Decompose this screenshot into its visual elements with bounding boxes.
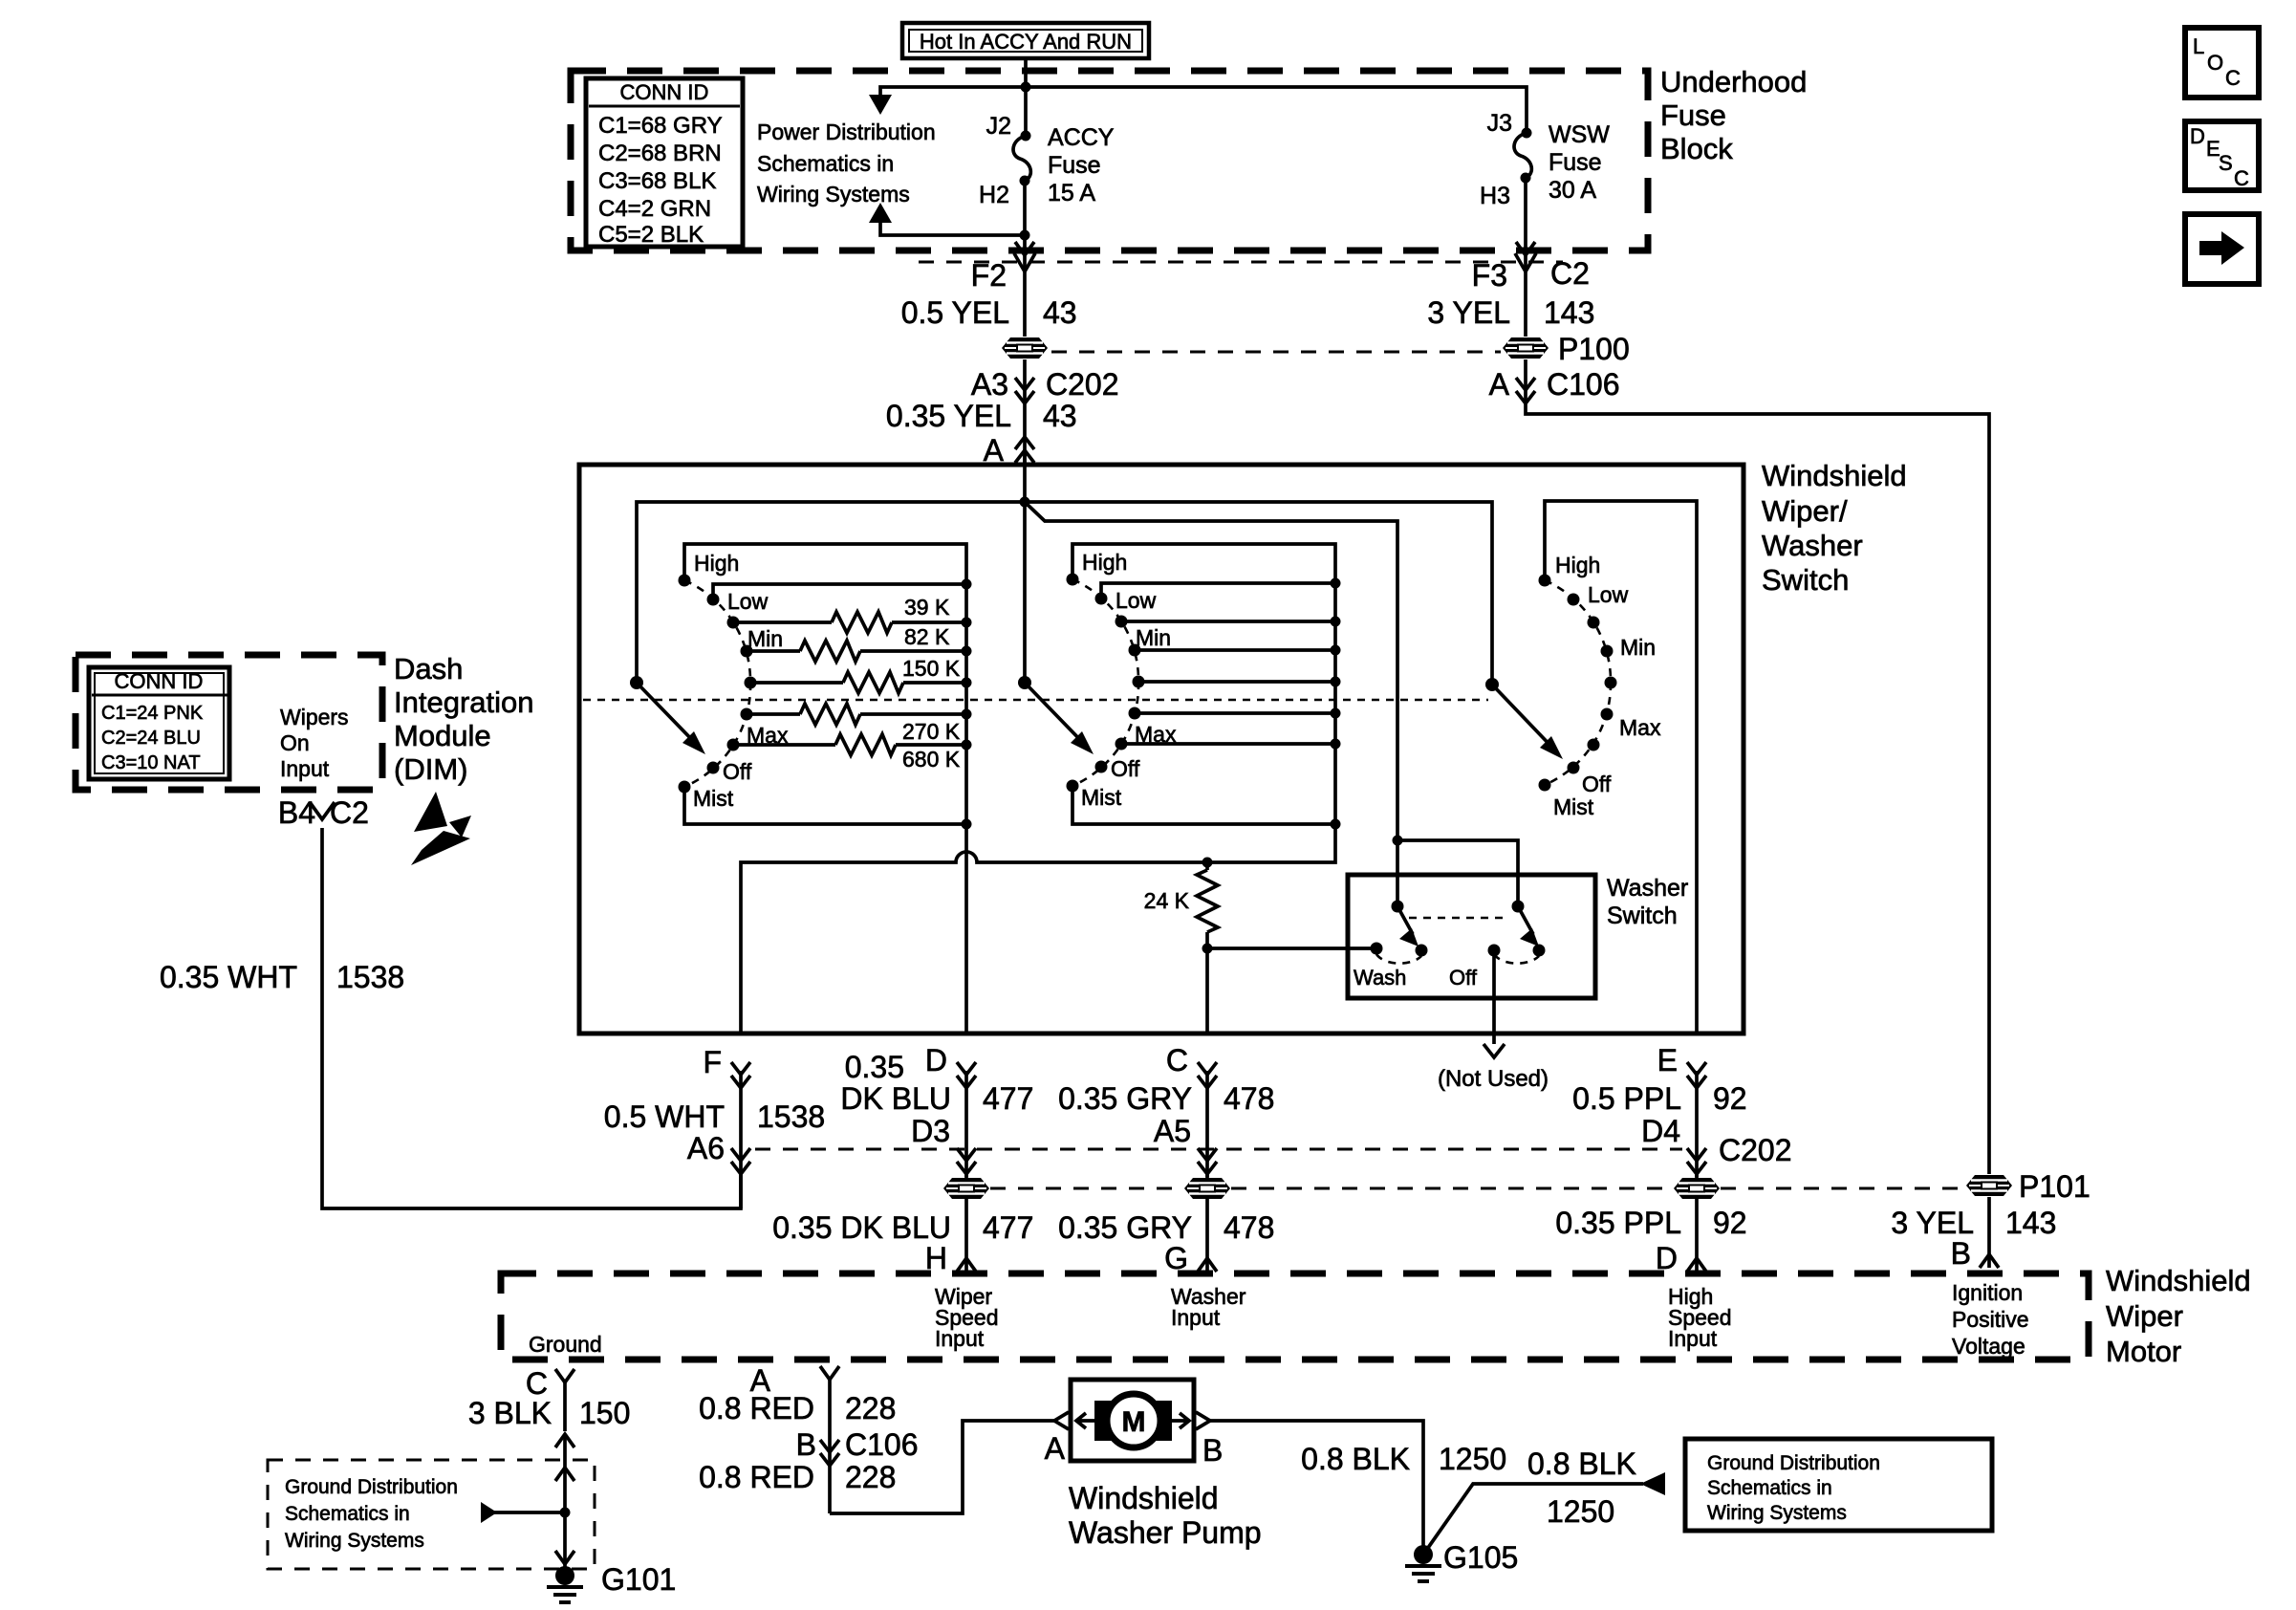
- svg-text:Dash: Dash: [394, 652, 463, 685]
- svg-text:Wiring Systems: Wiring Systems: [757, 182, 910, 207]
- wire 0.35 DK BLU 477 (lower): [772, 1210, 1033, 1245]
- wire P101 to pin B: [1987, 1197, 1991, 1268]
- top-right icon box arrow: [2185, 214, 2259, 284]
- svg-text:E: E: [1657, 1043, 1678, 1077]
- svg-text:143: 143: [1544, 295, 1594, 330]
- washer contact pole2 throw: [1533, 945, 1546, 957]
- svg-text:B: B: [796, 1427, 816, 1462]
- dashed splice row: [990, 1187, 1965, 1190]
- svg-text:43: 43: [1043, 399, 1077, 433]
- svg-text:Low: Low: [727, 589, 769, 614]
- node feed junction: [1020, 497, 1030, 508]
- svg-text:Switch: Switch: [1607, 903, 1678, 929]
- switch 3 position labels: [1553, 553, 1661, 819]
- connector C202 pin A3: [971, 359, 1119, 403]
- svg-text:Ignition: Ignition: [1952, 1280, 2023, 1305]
- svg-text:C2: C2: [330, 795, 369, 830]
- label High Speed Input: [1668, 1284, 1732, 1351]
- svg-text:3 BLK: 3 BLK: [468, 1396, 552, 1430]
- svg-text:Wiring Systems: Wiring Systems: [285, 1530, 424, 1552]
- svg-text:Integration: Integration: [394, 685, 534, 719]
- switch 2 position labels: [1081, 550, 1177, 810]
- resistor 24 K: [1144, 862, 1218, 948]
- svg-text:(DIM): (DIM): [394, 752, 467, 786]
- switch 3 contact dots: [1539, 575, 1617, 792]
- svg-text:0.8 RED: 0.8 RED: [699, 1391, 814, 1425]
- node J2 junction dot: [1021, 82, 1031, 93]
- svg-text:Fuse: Fuse: [1048, 152, 1101, 179]
- svg-text:Mist: Mist: [693, 786, 734, 811]
- resistor 270 K: [747, 704, 966, 744]
- splice on 478 wire: [1205, 1171, 1209, 1273]
- svg-text:Windshield: Windshield: [1762, 459, 1907, 492]
- svg-text:High: High: [1555, 553, 1600, 577]
- svg-text:Washer: Washer: [1607, 875, 1688, 902]
- washer contact wash: [1371, 943, 1383, 955]
- wire DIM wipers-on to A6: [322, 828, 741, 1208]
- wire 0.8 RED 228 (lower): [699, 1460, 896, 1494]
- svg-text:39 K: 39 K: [904, 595, 950, 620]
- svg-text:C: C: [1166, 1043, 1188, 1077]
- svg-text:C3=68 BLK: C3=68 BLK: [598, 168, 716, 194]
- dash integration module dashed outline: [76, 655, 382, 790]
- label Washer Input: [1171, 1284, 1246, 1330]
- svg-text:Schematics in: Schematics in: [285, 1503, 410, 1525]
- svg-text:1538: 1538: [336, 960, 404, 994]
- svg-text:J3: J3: [1487, 110, 1512, 137]
- splice pass-through P100: [1503, 337, 1549, 359]
- node ground branch junction: [560, 1508, 571, 1518]
- splice on 477 wire: [964, 1171, 968, 1273]
- svg-text:(Not Used): (Not Used): [1438, 1066, 1549, 1092]
- svg-text:Power Distribution: Power Distribution: [757, 120, 936, 144]
- ground distribution note box (right, solid): [1685, 1439, 1992, 1531]
- svg-text:0.5 PPL: 0.5 PPL: [1572, 1081, 1681, 1116]
- wire switch output bus to pin F: [741, 824, 1335, 1033]
- switch 1 contact dots: [679, 575, 757, 794]
- svg-text:Module: Module: [394, 719, 491, 752]
- splice on 92 wire: [1695, 1171, 1699, 1273]
- svg-text:ACCY: ACCY: [1048, 124, 1115, 151]
- arrowhead to ground distribution box: [1640, 1472, 1665, 1495]
- svg-text:82 K: 82 K: [904, 624, 950, 649]
- arrow down above G101: [555, 1551, 574, 1564]
- node 24K top junction: [1202, 858, 1213, 868]
- connector line C2 (fuse block to harness, dashed): [919, 261, 1563, 264]
- top-right icon box LOC: [2185, 28, 2259, 98]
- switch 2 output rail junction dots: [1331, 578, 1341, 830]
- wire ignition feed to wiper motor (right side): [1526, 402, 1989, 1174]
- dashed pole link: [1409, 917, 1506, 920]
- svg-text:L: L: [2193, 34, 2204, 58]
- wire 0.35 PPL 92 (lower): [1555, 1206, 1746, 1240]
- svg-text:C: C: [2225, 66, 2241, 90]
- svg-text:CONN ID: CONN ID: [620, 80, 709, 104]
- svg-text:M: M: [1122, 1406, 1146, 1438]
- svg-text:Windshield: Windshield: [1069, 1481, 1219, 1515]
- wire 0.35 GRY 478: [1058, 1071, 1274, 1177]
- svg-text:0.35 PPL: 0.35 PPL: [1555, 1206, 1681, 1240]
- wire feed rail to switch 1 pivot: [637, 502, 1025, 683]
- wire 24K junction to wash contact: [1207, 946, 1376, 950]
- svg-text:Hot In ACCY And RUN: Hot In ACCY And RUN: [920, 30, 1132, 54]
- svg-text:Wash: Wash: [1354, 966, 1406, 990]
- svg-text:143: 143: [2005, 1206, 2056, 1240]
- svg-text:F3: F3: [1472, 258, 1507, 293]
- resistor 82 K: [747, 624, 966, 662]
- svg-text:Off: Off: [1111, 756, 1140, 781]
- connector C106 pin A: [1489, 359, 1620, 403]
- wire branch from power distribution (bottom arrow): [869, 203, 1026, 235]
- svg-text:Low: Low: [1116, 588, 1157, 613]
- splice pass-through P101: [1966, 1175, 2012, 1196]
- svg-text:92: 92: [1713, 1081, 1747, 1116]
- svg-text:C1=24 PNK: C1=24 PNK: [101, 703, 204, 724]
- svg-text:C: C: [2234, 166, 2249, 190]
- wire branch to WSW fuse: [1026, 87, 1527, 133]
- washer pump terminal A chevron: [1054, 1412, 1069, 1429]
- svg-text:1250: 1250: [1547, 1494, 1614, 1529]
- switch 1 output rail junction dots: [962, 579, 972, 830]
- switch 3 contact arc: [1545, 580, 1611, 785]
- arrow up inside ground box: [555, 1468, 574, 1481]
- svg-text:43: 43: [1043, 295, 1077, 330]
- svg-text:24 K: 24 K: [1144, 888, 1190, 913]
- svg-text:270 K: 270 K: [902, 719, 961, 744]
- svg-text:G101: G101: [601, 1562, 676, 1597]
- splice pass-through on 43 wire: [1002, 337, 1048, 359]
- connector chevron B4/C2: [310, 802, 335, 819]
- svg-text:Low: Low: [1588, 582, 1629, 607]
- svg-text:J2: J2: [986, 113, 1011, 140]
- wire 3 BLK 150: [468, 1396, 631, 1430]
- resistor 150 K: [750, 656, 966, 693]
- svg-text:A3: A3: [971, 367, 1008, 402]
- svg-text:B4: B4: [278, 795, 315, 830]
- washer switch box: [1348, 875, 1595, 998]
- svg-text:C106: C106: [1547, 367, 1620, 402]
- svg-text:Positive: Positive: [1952, 1307, 2029, 1332]
- svg-text:Min: Min: [1620, 635, 1656, 660]
- switch 2 contact dots: [1067, 574, 1145, 793]
- washer contact pole1 throw: [1416, 945, 1428, 957]
- svg-text:Block: Block: [1660, 132, 1733, 165]
- ground G105: [1405, 1540, 1518, 1581]
- svg-text:Off: Off: [723, 759, 752, 784]
- washer switch pole 2: [1512, 901, 1540, 947]
- connector C202 dashed line: [755, 1148, 1682, 1151]
- top-right icon box DESC: [2185, 121, 2259, 190]
- label Wiper Speed Input: [935, 1284, 999, 1351]
- svg-text:Min: Min: [1136, 625, 1171, 650]
- svg-text:150: 150: [579, 1396, 630, 1430]
- svg-text:F2: F2: [971, 258, 1007, 293]
- svg-text:Wiper: Wiper: [2106, 1299, 2183, 1333]
- svg-text:0.5 YEL: 0.5 YEL: [901, 295, 1009, 330]
- svg-text:0.35 WHT: 0.35 WHT: [160, 960, 297, 994]
- svg-text:3 YEL: 3 YEL: [1427, 295, 1510, 330]
- svg-text:Voltage: Voltage: [1952, 1334, 2025, 1359]
- svg-text:S: S: [2219, 151, 2233, 175]
- ground G101: [547, 1562, 676, 1602]
- switch 1 position labels: [693, 551, 789, 811]
- svg-text:C202: C202: [1046, 367, 1119, 402]
- washer switch pole 1: [1392, 901, 1419, 947]
- switch 2 wiper pivot and arrow: [1018, 676, 1094, 754]
- svg-text:Ground: Ground: [529, 1332, 602, 1357]
- fuse ACCY Fuse 15 A: [1013, 87, 1115, 241]
- svg-text:Off: Off: [1449, 966, 1478, 990]
- svg-text:A: A: [1489, 367, 1510, 402]
- wire 24K junction down to pin C: [1205, 948, 1209, 1033]
- svg-text:Switch: Switch: [1762, 563, 1849, 597]
- svg-text:Input: Input: [1668, 1326, 1718, 1351]
- wire feed rail to washer switch: [1025, 502, 1397, 906]
- svg-text:C2=24 BLU: C2=24 BLU: [101, 728, 201, 749]
- svg-text:On: On: [280, 730, 310, 755]
- rotary switch 2 frame: [1072, 544, 1335, 824]
- svg-text:A: A: [1045, 1431, 1066, 1466]
- svg-text:C3=10 NAT: C3=10 NAT: [101, 752, 201, 773]
- wire switch 1 rail down to pin D: [964, 824, 968, 1033]
- svg-text:0.35 GRY: 0.35 GRY: [1058, 1081, 1192, 1116]
- svg-text:C202: C202: [1719, 1133, 1792, 1167]
- wire 0.5 WHT 1538: [604, 1071, 825, 1208]
- svg-text:228: 228: [845, 1460, 896, 1494]
- svg-text:Max: Max: [1619, 715, 1661, 740]
- rotary switch 1 frame: [684, 544, 966, 824]
- washer pump terminal B chevron: [1196, 1412, 1210, 1429]
- wire 0.35 YEL 43: [886, 399, 1077, 465]
- svg-text:Mist: Mist: [1081, 785, 1122, 810]
- battery feed box Hot In ACCY And RUN: [902, 23, 1149, 58]
- svg-text:D: D: [2190, 124, 2205, 148]
- wire 3 YEL 143: [1427, 295, 1594, 330]
- svg-text:Schematics in: Schematics in: [1707, 1477, 1832, 1499]
- wire washer pump feed: [830, 1421, 1054, 1513]
- svg-text:477: 477: [983, 1081, 1033, 1116]
- svg-text:C5=2 BLK: C5=2 BLK: [598, 222, 704, 248]
- svg-text:A5: A5: [1154, 1114, 1191, 1148]
- svg-text:D: D: [925, 1043, 947, 1077]
- resistor 680 K: [733, 734, 966, 772]
- svg-text:Wipers: Wipers: [280, 705, 349, 729]
- svg-text:C1=68 GRY: C1=68 GRY: [598, 113, 723, 139]
- resistor 39 K: [733, 595, 966, 633]
- svg-text:1538: 1538: [757, 1099, 825, 1134]
- svg-text:D4: D4: [1641, 1114, 1680, 1148]
- svg-text:High: High: [1082, 550, 1127, 575]
- wire 0.8 BLK 1250 to G105: [1210, 1421, 1423, 1555]
- svg-text:0.35: 0.35: [845, 1050, 904, 1084]
- svg-text:Washer: Washer: [1762, 529, 1863, 562]
- switch 1 low row wire: [713, 584, 966, 599]
- svg-text:G105: G105: [1443, 1540, 1518, 1575]
- svg-text:Ground Distribution: Ground Distribution: [1707, 1452, 1880, 1474]
- svg-text:C2=68 BRN: C2=68 BRN: [598, 141, 722, 166]
- note text Ground Distribution Schematics in Wiring Systems (left): [285, 1476, 458, 1552]
- svg-text:0.35 DK BLU: 0.35 DK BLU: [772, 1210, 951, 1245]
- svg-text:0.8 BLK: 0.8 BLK: [1301, 1442, 1410, 1476]
- wire washer feed to second pole: [1397, 840, 1518, 906]
- svg-text:Schematics in: Schematics in: [757, 151, 894, 176]
- windshield washer pump motor: [1071, 1380, 1194, 1461]
- ESD sensitive device symbol: [411, 792, 471, 865]
- wire 0.35 DK BLU 477: [840, 1050, 1033, 1177]
- arc off contact: [1494, 954, 1539, 964]
- svg-text:228: 228: [845, 1391, 896, 1425]
- windshield wiper motor dashed outline: [501, 1273, 2089, 1360]
- arc wash contact: [1376, 954, 1421, 964]
- svg-text:0.35 GRY: 0.35 GRY: [1058, 1210, 1192, 1245]
- svg-text:Min: Min: [747, 626, 783, 651]
- fuse WSW Fuse 30 A: [1514, 121, 1610, 235]
- svg-text:Fuse: Fuse: [1660, 98, 1726, 132]
- svg-text:Underhood: Underhood: [1660, 65, 1807, 98]
- wire 0.5 PPL 92: [1572, 1071, 1746, 1177]
- svg-text:H2: H2: [979, 182, 1009, 208]
- svg-text:DK BLU: DK BLU: [840, 1081, 951, 1116]
- rotary switch 3 feed wire: [1545, 501, 1697, 1033]
- wire ACCY fuse output exits fuse block: [1023, 235, 1027, 337]
- dashed link between pass-throughs: [1051, 351, 1501, 354]
- svg-text:Input: Input: [935, 1326, 985, 1351]
- svg-text:680 K: 680 K: [902, 747, 961, 772]
- windshield wiper/washer switch outline: [579, 465, 1744, 1033]
- wire not used output: [1438, 950, 1549, 1092]
- node washer feed junction: [1393, 836, 1403, 846]
- svg-text:CONN ID: CONN ID: [115, 669, 204, 693]
- svg-text:0.35 YEL: 0.35 YEL: [886, 399, 1011, 433]
- svg-text:0.8 RED: 0.8 RED: [699, 1460, 814, 1494]
- wire 3 YEL 143 (lower): [1891, 1206, 2056, 1240]
- svg-text:Washer Pump: Washer Pump: [1069, 1515, 1262, 1550]
- svg-text:C4=2 GRN: C4=2 GRN: [598, 196, 711, 222]
- label Wipers On Input: [280, 705, 349, 781]
- svg-text:Ground Distribution: Ground Distribution: [285, 1476, 458, 1498]
- svg-text:92: 92: [1713, 1206, 1747, 1240]
- dashed gang line across switches: [583, 699, 1488, 702]
- connector chevron into G101 branch: [555, 1434, 574, 1447]
- wire 0.35 WHT 1538 (DIM): [160, 960, 404, 994]
- wire 0.35 GRY 478 (lower): [1058, 1210, 1274, 1245]
- svg-text:High: High: [694, 551, 739, 576]
- svg-text:C106: C106: [845, 1427, 919, 1462]
- svg-text:C2: C2: [1550, 256, 1590, 291]
- wire WSW fuse output exits fuse block: [1524, 235, 1527, 337]
- underhood fuse block dashed outline: [571, 71, 1648, 250]
- svg-text:Wiper/: Wiper/: [1762, 494, 1848, 528]
- svg-text:0.5 WHT: 0.5 WHT: [604, 1099, 725, 1134]
- svg-text:1250: 1250: [1439, 1442, 1506, 1476]
- wire to ground distribution reference: [481, 1502, 565, 1523]
- wire 0.8 RED 228 (upper): [699, 1391, 896, 1425]
- svg-text:Motor: Motor: [2106, 1335, 2181, 1368]
- svg-text:0.8 BLK: 0.8 BLK: [1527, 1447, 1636, 1481]
- wire main feed into switch: [1023, 453, 1027, 683]
- svg-text:P101: P101: [2019, 1169, 2090, 1204]
- svg-text:O: O: [2207, 51, 2223, 75]
- svg-text:Fuse: Fuse: [1549, 149, 1602, 176]
- svg-text:B: B: [1951, 1236, 1971, 1271]
- svg-text:477: 477: [983, 1210, 1033, 1245]
- svg-text:P100: P100: [1558, 332, 1630, 366]
- wire from feed box into fuse block: [1024, 58, 1028, 87]
- svg-text:F: F: [703, 1045, 722, 1079]
- svg-text:15 A: 15 A: [1048, 180, 1095, 207]
- switch 1 contact arc: [684, 580, 750, 787]
- connector id table CONN ID (DIM): [89, 667, 229, 779]
- svg-text:A6: A6: [687, 1131, 725, 1165]
- wire 0.8 BLK 1250 to ground distribution: [1423, 1484, 1643, 1555]
- ground distribution note box (left, dashed): [268, 1460, 595, 1569]
- wire branch to power distribution (top arrow): [869, 87, 1026, 115]
- svg-text:30 A: 30 A: [1549, 177, 1596, 204]
- svg-text:Off: Off: [1582, 772, 1612, 796]
- svg-text:Windshield: Windshield: [2106, 1264, 2251, 1297]
- svg-text:Input: Input: [280, 756, 330, 781]
- svg-text:WSW: WSW: [1549, 121, 1610, 148]
- svg-text:3 YEL: 3 YEL: [1891, 1206, 1974, 1240]
- svg-text:150 K: 150 K: [902, 656, 961, 681]
- svg-text:478: 478: [1224, 1081, 1274, 1116]
- note text Ground Distribution Schematics in Wiring Systems (right): [1707, 1452, 1880, 1524]
- wire feed rail to switch 3 pivot: [1025, 502, 1492, 685]
- label Ignition Positive Voltage: [1952, 1280, 2029, 1359]
- svg-text:Wiring Systems: Wiring Systems: [1707, 1502, 1847, 1524]
- svg-text:D3: D3: [911, 1114, 950, 1148]
- svg-text:Mist: Mist: [1553, 794, 1594, 819]
- switch 2 contact arc: [1072, 579, 1138, 786]
- svg-text:478: 478: [1224, 1210, 1274, 1245]
- washer contact off: [1488, 945, 1501, 957]
- switch 3 wiper pivot and arrow: [1485, 678, 1563, 759]
- svg-text:Input: Input: [1171, 1305, 1221, 1330]
- svg-text:H3: H3: [1480, 183, 1510, 209]
- switch 1 wiper pivot and arrow: [630, 676, 705, 754]
- node 24K bottom junction: [1202, 944, 1213, 954]
- connector id table CONN ID (fuse block): [586, 78, 743, 248]
- wire 0.5 YEL 43: [901, 295, 1077, 330]
- svg-text:B: B: [1202, 1433, 1223, 1468]
- switch 2 row wires: [1101, 583, 1335, 744]
